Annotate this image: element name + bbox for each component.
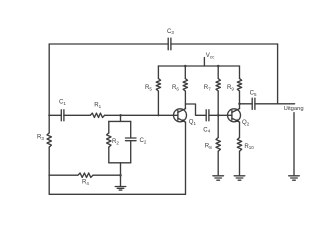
node junction R4 left tee (48, 174, 50, 176)
wire C4 to Q2 base (209, 114, 232, 116)
svg-text:C5: C5 (250, 90, 257, 97)
resistor R8 (216, 138, 220, 152)
node junction rail R6 (184, 65, 187, 68)
label R2 (112, 138, 119, 145)
wire box bottom (109, 162, 131, 164)
svg-text:R7: R7 (204, 84, 211, 91)
wire R7 to base node (217, 91, 219, 115)
label Vcc (206, 52, 215, 59)
wire C1 to R1 (64, 114, 90, 116)
wire R8 to ground (217, 151, 219, 175)
resistor R7 (216, 79, 220, 92)
node junction R5 base tee (157, 114, 159, 116)
ground below R2C2 (115, 187, 126, 191)
wire top feedback left segment (49, 43, 168, 45)
resistor R3 (47, 133, 51, 147)
wire R6 to Q1 collector (184, 91, 186, 109)
wire R5 to base node (157, 91, 159, 115)
wire box right lower (130, 141, 132, 163)
wire R10 to ground (239, 151, 241, 175)
label Q2 (242, 119, 250, 126)
wire Q2 emitter to R10 (239, 122, 241, 137)
label R7 (204, 84, 211, 91)
wire R4 left (49, 174, 78, 176)
svg-text:Uitgang: Uitgang (284, 106, 304, 112)
svg-text:R9: R9 (227, 84, 234, 91)
wire box to ground (120, 163, 122, 186)
resistor R2 (107, 133, 111, 147)
label R3 (37, 134, 44, 141)
capacitor C1 (61, 110, 64, 121)
resistor R5 (156, 79, 160, 92)
wire box left upper (108, 121, 110, 132)
wire feedback vertical (277, 44, 279, 104)
label R10 (244, 143, 254, 150)
wire box right upper (130, 121, 132, 138)
wire Vcc rail (158, 65, 239, 67)
svg-text:C4: C4 (203, 126, 210, 133)
label R6 (172, 84, 179, 91)
node junction R1/R2 (119, 114, 122, 117)
node junction rail R7 (217, 65, 220, 68)
resistor R1 (90, 113, 104, 117)
wire C5 to output (255, 103, 295, 105)
wire collector step to C4 (185, 104, 206, 115)
label R5 (145, 84, 152, 91)
capacitor C2 (126, 138, 137, 141)
svg-text:R4: R4 (82, 179, 89, 186)
wire output to ground (293, 113, 295, 176)
label C3 (167, 28, 174, 35)
label R4 (82, 179, 89, 186)
transistor Q1 (174, 109, 187, 123)
resistor R6 (183, 79, 187, 92)
node junction R7/R8/base (217, 114, 220, 117)
label R1 (94, 102, 101, 109)
resistor R10 (237, 138, 241, 152)
wire collector node to C5 (240, 103, 253, 105)
capacitor C3 (168, 38, 171, 50)
label C4 (203, 126, 210, 133)
svg-text:C3: C3 (167, 28, 174, 35)
wire R4 right (93, 174, 121, 176)
wire rail to R7 (217, 66, 219, 79)
wire top feedback right segment (171, 43, 278, 45)
wire input node (49, 114, 61, 116)
wire Q1 emitter down (185, 122, 187, 194)
svg-text:R8: R8 (205, 143, 212, 150)
label R8 (205, 143, 212, 150)
wire bottom rail (49, 193, 185, 195)
resistor R4 (78, 173, 93, 177)
wire R9 to Q2 collector node (239, 91, 241, 109)
svg-text:R3: R3 (37, 134, 44, 141)
wire R1 to Q1 base (105, 114, 178, 116)
svg-text:R2: R2 (112, 138, 119, 145)
node junction R4/ground line (119, 174, 122, 177)
wire base node to R8 (217, 115, 219, 137)
node Vcc tick (203, 58, 205, 66)
wire box left lower (108, 147, 110, 163)
svg-text:Q2: Q2 (242, 119, 250, 126)
svg-text:Vcc: Vcc (206, 52, 215, 59)
wire left vertical lower (48, 147, 50, 194)
label R9 (227, 84, 234, 91)
svg-text:Q1: Q1 (189, 118, 197, 125)
ground below output (289, 176, 300, 180)
node R2C2 box top (109, 120, 131, 122)
svg-text:R5: R5 (145, 84, 152, 91)
resistor R9 (237, 79, 241, 92)
ground below R10 (234, 176, 245, 180)
wire rail to R5 (157, 66, 159, 79)
svg-text:R6: R6 (172, 84, 179, 91)
label Uitgang (284, 106, 304, 112)
wire rail to R6 (184, 66, 186, 79)
node junction Q2 collector / C5 (238, 103, 241, 106)
svg-text:R1: R1 (94, 102, 101, 109)
label C2 (140, 137, 147, 144)
ground below R8 (213, 176, 224, 180)
label C1 (59, 98, 66, 105)
wire junction down to R2C2 box (120, 115, 122, 121)
label Q1 (189, 118, 197, 125)
svg-text:R10: R10 (244, 143, 254, 150)
capacitor C5 (252, 98, 255, 109)
svg-text:C2: C2 (140, 137, 147, 144)
svg-text:C1: C1 (59, 98, 66, 105)
wire rail to R9 (239, 66, 241, 79)
label C5 (250, 90, 257, 97)
node junction C1 tee (48, 114, 50, 116)
wire left vertical upper (48, 44, 50, 133)
capacitor C4 (206, 110, 209, 121)
transistor Q2 (228, 109, 241, 123)
